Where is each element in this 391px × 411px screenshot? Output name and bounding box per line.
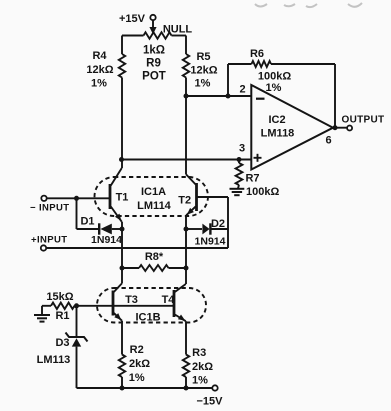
svg-text:100kΩ: 100kΩ (246, 186, 279, 198)
svg-text:LM118: LM118 (261, 128, 295, 140)
transistor T2 (195, 183, 198, 211)
svg-text:1%: 1% (192, 375, 208, 387)
potentiometer R9 wiper arrow (152, 20, 154, 28)
wire T2 emitter down (185, 215, 187, 284)
svg-text:POT: POT (142, 71, 166, 83)
svg-text:R7: R7 (245, 173, 259, 185)
svg-text:NULL: NULL (163, 24, 193, 36)
resistor R1 15k (42, 305, 51, 307)
transistor T3 (112, 291, 115, 316)
wire node A to op-amp pin 3 (119, 157, 124, 162)
wire T2 base branch vertical (227, 197, 229, 248)
wire +15V rail to R5 (185, 36, 187, 55)
wire R4 to node A (121, 78, 123, 169)
svg-text:6: 6 (325, 135, 331, 147)
svg-text:2kΩ: 2kΩ (129, 358, 150, 370)
svg-text:2kΩ: 2kΩ (192, 361, 213, 373)
svg-text:1N914: 1N914 (91, 234, 122, 246)
svg-text:15kΩ: 15kΩ (46, 291, 73, 303)
wire T4 emitter down (185, 321, 187, 354)
diode D1 1N914 (98, 223, 100, 234)
svg-text:R9: R9 (146, 58, 161, 70)
svg-text:IC1A: IC1A (141, 186, 166, 198)
svg-text:1%: 1% (129, 372, 145, 384)
svg-text:R5: R5 (196, 51, 210, 63)
IC1B dashed outline (97, 288, 206, 323)
svg-text:LM113: LM113 (37, 354, 71, 366)
svg-text:− INPUT: − INPUT (30, 203, 70, 214)
resistor R7 100k (238, 160, 240, 164)
potentiometer R9 1k (122, 35, 144, 37)
svg-text:1kΩ: 1kΩ (143, 45, 165, 57)
svg-text:IC2: IC2 (268, 114, 285, 126)
ground at R1 (41, 306, 43, 315)
svg-text:1%: 1% (91, 78, 107, 90)
base rail of T3 T4 (74, 303, 79, 308)
svg-text:−15V: −15V (197, 395, 224, 407)
svg-text:3: 3 (239, 143, 245, 155)
transistor T1 (109, 184, 112, 209)
svg-text:R3: R3 (192, 347, 206, 359)
svg-text:LM114: LM114 (137, 200, 172, 212)
wire feedback right (334, 64, 336, 128)
svg-text:100kΩ: 100kΩ (258, 71, 291, 83)
wire T3 emitter down (121, 321, 123, 355)
svg-text:R8*: R8* (145, 251, 164, 263)
IC1A dashed outline (95, 177, 209, 216)
svg-text:1%: 1% (195, 78, 211, 90)
svg-text:+15V: +15V (119, 13, 146, 25)
svg-text:1N914: 1N914 (195, 236, 226, 248)
resistor R2 2k 1% (119, 355, 125, 378)
junction D1-emitter (120, 227, 125, 232)
diode D2 1N914 (184, 227, 189, 232)
svg-text:D1: D1 (80, 216, 94, 228)
wire +INPUT to T2 base branch (46, 247, 228, 249)
svg-text:T2: T2 (178, 195, 191, 207)
svg-text:+INPUT: +INPUT (31, 235, 67, 246)
svg-text:R1: R1 (55, 310, 69, 322)
wire D1 branch (76, 198, 78, 229)
op-amp IC2 LM118 (251, 85, 333, 170)
svg-text:R6: R6 (250, 48, 264, 60)
ground at R7 (230, 188, 245, 190)
zener diode D3 LM113 (66, 333, 88, 342)
wire R5 to T2 collector (185, 78, 187, 175)
scan smudges (decorative) (255, 3, 362, 7)
wire T1 emitter down (121, 222, 123, 284)
-15V rail (77, 387, 213, 389)
svg-text:IC1B: IC1B (135, 312, 160, 324)
wire +15V rail to R4 (121, 36, 123, 55)
wire feedback left (227, 64, 229, 96)
wire -INPUT to T1 base (47, 197, 110, 199)
svg-text:12kΩ: 12kΩ (190, 65, 217, 77)
svg-text:OUTPUT: OUTPUT (342, 115, 385, 126)
svg-text:R2: R2 (130, 344, 144, 356)
svg-text:T3: T3 (125, 294, 138, 306)
svg-text:D3: D3 (55, 337, 69, 349)
svg-text:D2: D2 (211, 218, 225, 230)
resistor R6 100k 1% (228, 63, 252, 65)
svg-text:1%: 1% (266, 82, 282, 94)
terminal -INPUT (41, 196, 46, 201)
svg-text:12kΩ: 12kΩ (86, 64, 113, 76)
terminal +INPUT (41, 245, 46, 250)
svg-text:T1: T1 (116, 192, 129, 204)
resistor R8* (120, 266, 125, 271)
svg-text:R4: R4 (92, 50, 107, 62)
resistor R4 12k 1% (119, 54, 125, 78)
wire node B to op-amp pin 2 (186, 95, 251, 97)
transistor T4 (173, 290, 176, 317)
+15V supply terminal (150, 15, 155, 20)
wire base rail to D3 (76, 306, 78, 337)
resistor R5 12k 1% (183, 54, 189, 78)
svg-text:2: 2 (239, 84, 245, 96)
resistor R3 2k 1% (183, 355, 189, 378)
output wire and terminal (333, 127, 347, 129)
